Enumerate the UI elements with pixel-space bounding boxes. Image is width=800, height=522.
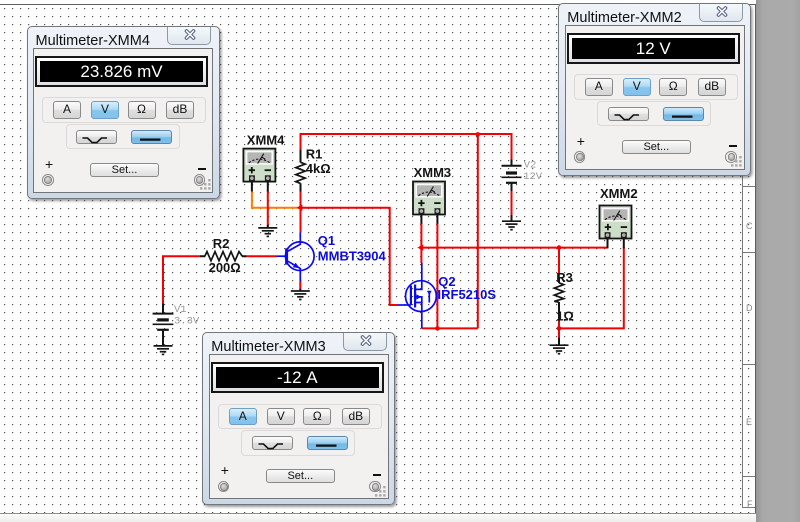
resistor R1 <box>296 162 305 183</box>
label XMM2 <box>600 186 638 201</box>
svg-text:1Ω: 1Ω <box>556 309 574 324</box>
label XMM3 <box>414 165 452 180</box>
label Q2 <box>438 274 497 302</box>
lead stubs black R1 <box>300 150 302 192</box>
node top junction <box>476 132 481 137</box>
label V2 value <box>523 159 543 183</box>
ground below V2 <box>502 221 521 230</box>
wire R3 bottom to XMM2 minus <box>559 247 624 328</box>
svg-text:R1: R1 <box>306 147 323 162</box>
lead stubs R2 <box>200 255 246 257</box>
svg-text:R3: R3 <box>556 270 573 285</box>
ground below V1 <box>154 346 173 355</box>
label Q1 <box>318 233 387 263</box>
svg-text:12V: 12V <box>523 171 543 183</box>
wire V2 bottom to ground <box>511 191 513 216</box>
wire XMM3 plus to node B <box>420 223 422 247</box>
label R3 value <box>556 270 574 324</box>
ground below XMM4 minus <box>258 228 277 237</box>
resistor R2 <box>205 252 243 261</box>
instrument window Multimeter-XMM3 <box>202 332 395 505</box>
node R3 bottom junction <box>557 326 562 331</box>
zone letter C <box>746 221 753 231</box>
zone letter E <box>746 417 752 427</box>
wire node B to R3 top <box>558 248 560 278</box>
zone letter D <box>746 303 753 313</box>
node A junction arrow <box>297 205 303 211</box>
lead stubs V2 <box>511 160 513 222</box>
wire node B horizontal to XMM2 plus <box>421 247 607 249</box>
wire Q2 drain bottom run <box>422 327 478 329</box>
wire Q1 emitter to ground <box>299 281 301 290</box>
wire R3 bottom to ground node <box>558 320 560 338</box>
svg-text:3.3V: 3.3V <box>174 316 200 328</box>
svg-text:200Ω: 200Ω <box>209 260 241 275</box>
lead stubs V1 <box>162 304 164 347</box>
lead stub Q1 emitter ground <box>299 289 301 292</box>
battery V1 <box>153 314 174 330</box>
transistor Q1 <box>276 232 314 281</box>
zone letter F <box>747 499 753 509</box>
instrument window Multimeter-XMM2 <box>558 3 751 176</box>
lead stub ground G2 <box>267 225 269 228</box>
node B junction arrow <box>417 245 423 251</box>
sheet right border <box>755 4 756 513</box>
wire orange XMM4 plus to node A <box>252 191 299 208</box>
svg-text:4kΩ: 4kΩ <box>306 161 331 176</box>
wire XMM3 minus down <box>436 223 438 328</box>
ground below Q1 emitter <box>291 291 310 300</box>
svg-text:XMM3: XMM3 <box>414 165 452 180</box>
ground below R3 <box>550 345 569 354</box>
label XMM4 <box>247 132 285 147</box>
wire node B down to Q2 source <box>420 248 422 263</box>
lead stubs black XMM4 <box>252 181 268 191</box>
svg-text:IRF5210S: IRF5210S <box>438 287 497 302</box>
lead stubs XMM3 <box>421 215 437 224</box>
svg-text:V1: V1 <box>174 304 187 316</box>
zone column line <box>742 4 743 508</box>
svg-text:XMM2: XMM2 <box>600 186 638 201</box>
label R1 value <box>306 147 331 177</box>
wire R2 to Q1 base <box>246 255 277 257</box>
svg-text:R2: R2 <box>213 236 230 251</box>
svg-text:XMM4: XMM4 <box>247 132 285 147</box>
battery V2 <box>502 166 522 183</box>
node R3 top junction <box>557 245 562 250</box>
lead stubs R3 <box>558 277 560 345</box>
wire vertical net from top node down to Q2 drain net <box>477 134 479 328</box>
svg-text:V2: V2 <box>524 159 537 171</box>
resistor R3 <box>554 283 563 303</box>
instrument window Multimeter-XMM4 <box>27 26 220 199</box>
wire R1 bottom to node A <box>300 191 302 208</box>
wire R2 left to V1 top <box>163 256 201 304</box>
multimeter symbol XMM2 <box>600 206 632 239</box>
svg-text:Q1: Q1 <box>318 233 335 248</box>
wire node A to Q1 collector <box>300 208 302 233</box>
lead stubs XMM2 <box>608 238 624 248</box>
multimeter symbol XMM3 <box>413 182 445 215</box>
sheet top border <box>0 4 756 5</box>
label V1 value <box>174 304 200 327</box>
label R2 value <box>209 236 241 275</box>
wire R1 top to V2 top <box>301 134 512 160</box>
multimeter symbol XMM4 <box>243 149 275 182</box>
node XMM3 minus junction <box>435 326 440 331</box>
wire XMM4 minus to ground <box>267 191 269 226</box>
wire node A to Q2 gate <box>301 208 399 305</box>
transistor Q2 <box>398 263 436 329</box>
svg-text:MMBT3904: MMBT3904 <box>318 248 387 263</box>
zone dividers <box>742 186 755 187</box>
